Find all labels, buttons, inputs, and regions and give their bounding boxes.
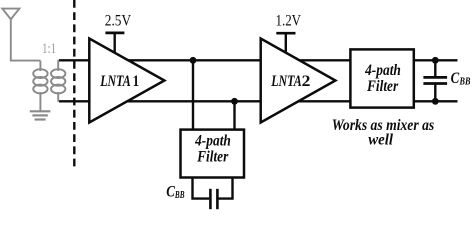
node output dot top bbox=[432, 57, 439, 64]
svg-text:1:1: 1:1 bbox=[42, 41, 56, 57]
wires from bottom box to capacitor bbox=[193, 177, 233, 199]
svg-text:1.2V: 1.2V bbox=[276, 12, 302, 29]
antenna bbox=[2, 9, 40, 61]
label C_BB (right) bbox=[451, 70, 471, 88]
svg-text:2: 2 bbox=[302, 73, 311, 90]
supply wire 1.2V bbox=[276, 33, 295, 54]
label LNTA1 bbox=[99, 73, 139, 90]
ground bbox=[30, 111, 51, 119]
svg-text:BB: BB bbox=[174, 190, 185, 201]
filter box U2 (mixer) bbox=[350, 49, 413, 107]
capacitor C_BB (right) bbox=[423, 77, 447, 83]
svg-text:well: well bbox=[368, 132, 393, 149]
svg-text:LNTA: LNTA bbox=[99, 73, 131, 90]
svg-text:1: 1 bbox=[133, 73, 140, 90]
label 4-path Filter (right box) bbox=[364, 62, 401, 95]
op-amp LNTA2 bbox=[261, 39, 336, 123]
wire vertical drop from top line to filter bbox=[192, 59, 194, 131]
filter box U1 (baseband) bbox=[181, 130, 245, 178]
dashed chip boundary bbox=[73, 0, 75, 169]
svg-text:Filter: Filter bbox=[366, 78, 399, 95]
capacitor C_BB (bottom) bbox=[210, 189, 217, 209]
svg-text:C: C bbox=[451, 70, 460, 87]
label C_BB (bottom) bbox=[166, 183, 185, 201]
svg-text:LNTA: LNTA bbox=[270, 73, 302, 90]
op-amp LNTA1 bbox=[89, 39, 164, 123]
svg-text:4-path: 4-path bbox=[194, 133, 231, 150]
wires to output capacitor bbox=[434, 60, 436, 101]
transformer primary winding bbox=[33, 61, 47, 111]
label LNTA2 bbox=[270, 73, 310, 90]
wire vertical drop from bottom line to filter bbox=[233, 100, 235, 131]
wire top differential line bbox=[59, 59, 458, 61]
caption works as mixer as well bbox=[332, 117, 434, 149]
node output dot bottom bbox=[432, 98, 439, 105]
svg-text:2.5V: 2.5V bbox=[105, 12, 132, 29]
svg-text:BB: BB bbox=[459, 77, 471, 88]
svg-text:Filter: Filter bbox=[196, 148, 229, 165]
supply wire 2.5V bbox=[105, 33, 124, 54]
wire bottom differential line bbox=[59, 100, 458, 102]
label 4-path Filter (bottom box) bbox=[194, 133, 231, 166]
node junction dot top line bbox=[190, 57, 197, 64]
svg-text:4-path: 4-path bbox=[364, 62, 401, 79]
node junction dot bottom line bbox=[231, 98, 238, 105]
transformer secondary winding bbox=[51, 60, 65, 102]
